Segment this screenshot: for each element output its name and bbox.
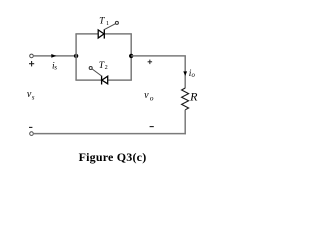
thyristor T1 triangle [98,30,104,38]
thyristor T1 gate terminal circle [115,21,118,24]
current arrow i_o [183,71,187,76]
current arrow i_s [51,54,56,58]
thyristor T2 cathode bar [101,76,103,85]
terminal: source negative (open circle) [30,132,34,136]
node: right junction dot [129,54,133,58]
wire: bottom return [34,133,186,135]
wire: T1 branch horizontal [75,33,131,35]
label + (load) [148,61,153,63]
svg-text:2: 2 [105,64,108,71]
label + (source) [29,63,34,65]
wire: from right junction to load corner [131,55,186,57]
thyristor T2 triangle [102,76,108,84]
svg-text:o: o [192,72,196,79]
thyristor T2 gate lead [92,69,102,76]
label - (load) [150,126,154,128]
wire: load vertical lower segment [184,110,186,135]
svg-text:s: s [54,64,57,72]
wire: right vertical of parallel block [130,34,132,80]
resistor R zigzag [182,88,189,110]
thyristor T2 gate terminal circle [89,67,92,70]
svg-text:o: o [150,94,154,103]
thyristor T1 gate lead [104,24,115,30]
svg-text:T: T [99,17,105,27]
svg-text:v: v [144,90,149,101]
svg-text:1: 1 [106,20,109,27]
wire: input top horizontal [34,55,76,57]
svg-text:R: R [189,89,198,103]
wire: load vertical upper segment [184,56,186,88]
node: left junction dot [74,54,78,58]
thyristor T1 cathode bar [103,29,105,38]
wire: left vertical of parallel block [75,34,77,80]
svg-text:Figure Q3(c): Figure Q3(c) [79,150,147,164]
wire: T2 branch horizontal [75,79,131,81]
terminal: source positive (open circle) [30,54,34,58]
label - (source) [29,126,32,128]
svg-text:s: s [32,93,35,101]
